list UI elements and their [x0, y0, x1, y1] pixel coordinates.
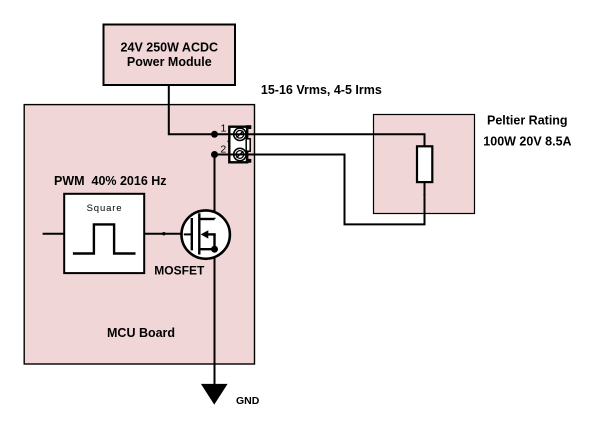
junction below resistor [423, 194, 425, 196]
svg-text:2: 2 [220, 143, 226, 155]
label PWM 40% 2016 Hz [54, 174, 167, 188]
svg-text:1: 1 [221, 122, 227, 134]
resistor R1 Peltier element [417, 146, 432, 182]
wire input stub to square source [43, 233, 65, 235]
svg-text:Power Module: Power Module [127, 55, 212, 69]
junction node 1 [211, 131, 218, 138]
junction on gate wire [162, 232, 165, 235]
label MCU Board [107, 326, 175, 340]
svg-text:Square: Square [87, 203, 123, 214]
ground [201, 384, 228, 405]
svg-text:MOSFET: MOSFET [154, 264, 205, 278]
square wave source U1 box [64, 194, 144, 273]
wire MOSFET source to ground [214, 249, 216, 384]
wire from power module to node 1 [169, 85, 426, 134]
junction node 2 [211, 151, 218, 158]
connector J1 pin 1 terminal [234, 128, 246, 140]
label Peltier Rating [487, 114, 568, 128]
pin number 1 [221, 122, 227, 134]
wire net 2 from node to Peltier [215, 155, 425, 225]
svg-text:MCU Board: MCU Board [107, 326, 175, 340]
svg-text:24V 250W ACDC: 24V 250W ACDC [121, 41, 219, 55]
svg-text:100W 20V 8.5A: 100W 20V 8.5A [483, 134, 571, 148]
MCU board module box [24, 105, 254, 364]
svg-text:GND: GND [236, 395, 260, 407]
wire square source to gate [144, 233, 192, 235]
wire node 2 to MOSFET drain [214, 155, 216, 220]
connector J1 body [229, 125, 251, 163]
MOSFET Q1 [182, 210, 230, 258]
connector J1 pin 2 edge mark [227, 140, 229, 142]
wire node1 drop to resistor top [424, 134, 426, 147]
svg-text:PWM 40% 2016 Hz: PWM 40% 2016 Hz [54, 174, 167, 188]
label GND [236, 395, 260, 407]
svg-text:15-16 Vrms, 4-5 Irms: 15-16 Vrms, 4-5 Irms [261, 83, 382, 97]
connector J1 pin 2 terminal [234, 148, 246, 160]
svg-text:Peltier Rating: Peltier Rating [487, 114, 568, 128]
label 100W 20V 8.5A [483, 134, 571, 148]
Peltier module box [374, 115, 475, 214]
pin number 2 [220, 143, 226, 155]
power module PS1 box [104, 25, 236, 86]
label MOSFET [154, 264, 205, 278]
label 15-16 Vrms, 4-5 Irms [261, 83, 382, 97]
